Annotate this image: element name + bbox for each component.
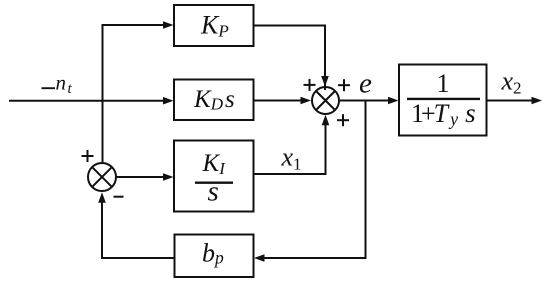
block transfer function 1/(1+Ty s) (399, 65, 487, 136)
wire S1 output to KI/s (117, 176, 167, 178)
arrowhead into transfer block (388, 97, 399, 105)
arrowhead into KI/s (163, 173, 174, 181)
wire branch vertical at x=102.5 (102, 25, 104, 162)
svg-text:s: s (208, 175, 219, 207)
arrowhead into KDs (163, 97, 174, 105)
fraction bar KI/s (195, 181, 233, 183)
wire e branch down and left into bp (262, 101, 366, 259)
wire branch to KP (102, 24, 167, 26)
wire KDs output to S2 left (254, 100, 305, 102)
arrowhead into KP (163, 21, 174, 29)
fraction bar transfer function (407, 98, 480, 100)
arrowhead into S1 bottom (98, 192, 106, 203)
arrowhead output x2 (532, 97, 543, 105)
block KDs (174, 80, 254, 121)
block KP (174, 5, 254, 46)
wire input -nt horizontal into KDs (9, 100, 166, 102)
block bp (175, 235, 254, 278)
wire x1: KI/s output up to S2 bottom (254, 118, 326, 174)
wire KP output to S2 top (254, 26, 326, 91)
sign plus at S2 lower-right (337, 114, 349, 126)
arrowhead into S2 left (301, 97, 312, 105)
wire bp output left and up to S1 bottom (102, 196, 175, 258)
label -nt input (42, 87, 56, 89)
svg-text:e: e (359, 68, 372, 100)
summing junction S2 (312, 87, 339, 114)
wire e: S2 output to transfer block (340, 100, 392, 102)
block KI/s (174, 141, 254, 212)
arrowhead into S2 bottom (322, 115, 330, 126)
svg-text:1: 1 (437, 69, 450, 98)
arrowhead into S2 top (321, 76, 329, 87)
sign plus at S2 upper-left (304, 79, 316, 91)
sign plus at S2 upper-right (338, 79, 350, 91)
arrowhead into bp right side (254, 254, 265, 262)
sign plus at S1 top-left (82, 150, 94, 162)
sign minus at S1 bottom-right (114, 196, 124, 198)
wire output x2 (487, 100, 534, 102)
summing junction S1 (88, 163, 116, 191)
svg-text:1+Tys: 1+Tys (411, 98, 476, 129)
